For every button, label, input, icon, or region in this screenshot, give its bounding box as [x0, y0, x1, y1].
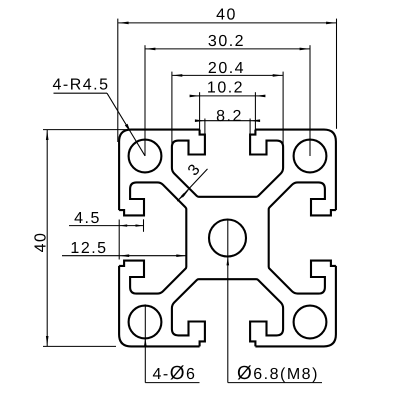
svg-text:40: 40 [33, 232, 50, 253]
top-right outer corner and faces [255, 130, 336, 211]
svg-text:20.4: 20.4 [208, 60, 245, 77]
dimension 3 (web wall thickness) leader [177, 169, 207, 201]
svg-text:30.2: 30.2 [208, 33, 245, 50]
dimension 20.4 (between slot wing walls) [171, 72, 173, 145]
bottom-right outer corner and faces [255, 266, 336, 347]
top-right corner hole Ø6 [294, 140, 327, 173]
svg-text:40: 40 [216, 7, 237, 24]
svg-text:4-Ø6: 4-Ø6 [153, 363, 197, 384]
top-left corner hole Ø6 [129, 140, 162, 173]
dimension 12.5 (face to hub edge) [62, 255, 186, 257]
left slot T-slot cavity [119, 182, 186, 293]
label Ø6.8(M8) leader [227, 220, 229, 383]
center hole Ø6.8 [209, 220, 246, 257]
dimension 4.5 (slot lip depth) [118, 220, 120, 260]
dimension 40 (top overall width) [117, 19, 119, 142]
dimension 10.2 (slot surface opening) [199, 92, 201, 135]
bottom-left outer corner and faces [119, 266, 200, 347]
svg-text:12.5: 12.5 [70, 240, 107, 257]
svg-text:4.5: 4.5 [74, 210, 101, 227]
bottom slot T-slot cavity [172, 279, 283, 346]
top slot T-slot cavity [172, 130, 283, 197]
label 4-Ø6 leader [144, 304, 146, 382]
svg-text:10.2: 10.2 [207, 80, 244, 97]
bottom-right corner hole Ø6 [294, 306, 327, 339]
svg-text:4-R4.5: 4-R4.5 [53, 77, 110, 94]
svg-text:8.2: 8.2 [216, 108, 243, 125]
label 4-R4.5 leader [54, 92, 108, 94]
top-left outer corner and faces [119, 130, 200, 211]
right slot T-slot cavity [269, 182, 336, 293]
dimension 30.2 (corner hole centers) [144, 45, 146, 156]
dimension 8.2 (slot throat width) [204, 119, 206, 136]
svg-text:Ø6.8(M8): Ø6.8(M8) [237, 363, 319, 384]
bottom-left corner hole Ø6 [129, 306, 162, 339]
dimension 40 (left overall height) [43, 129, 131, 131]
